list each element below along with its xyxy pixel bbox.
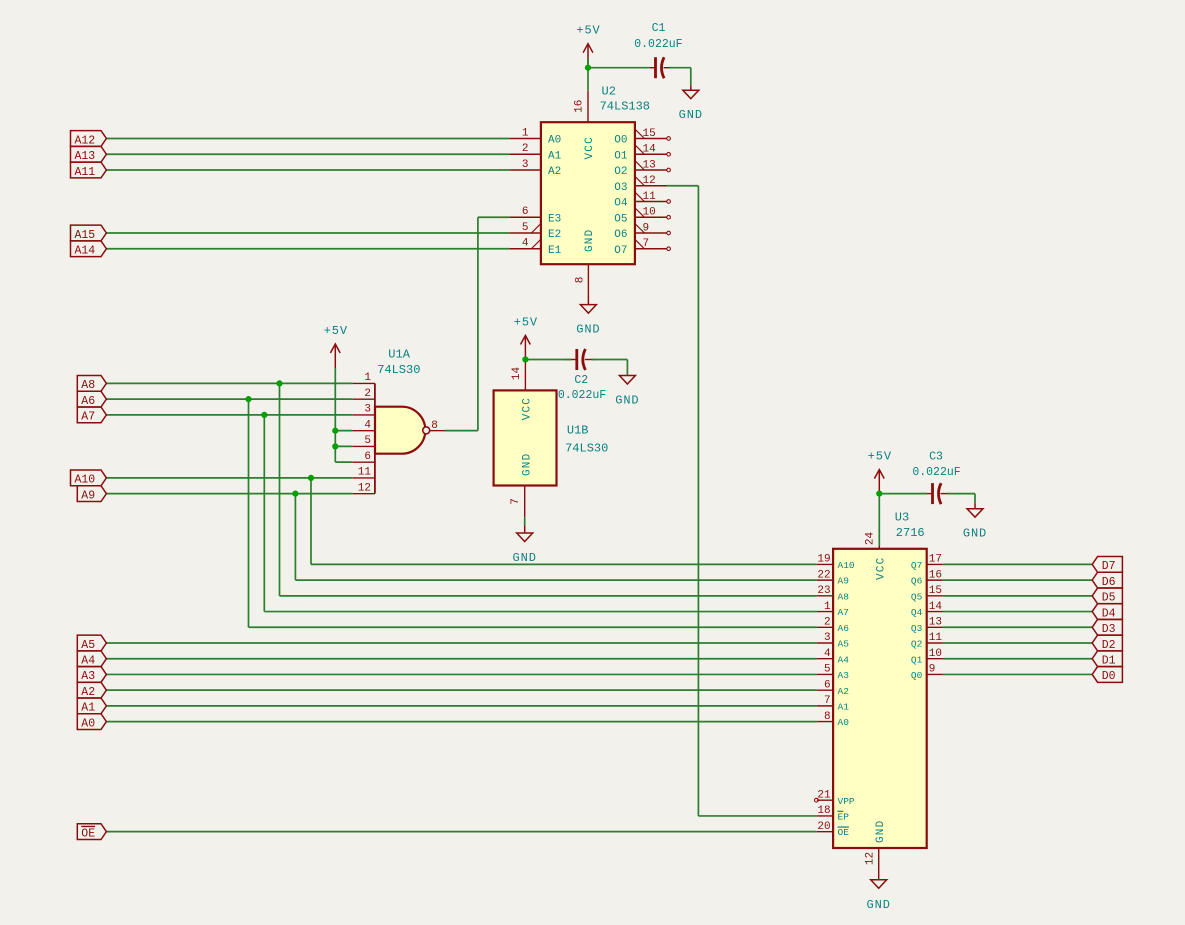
svg-text:15: 15 <box>929 585 942 597</box>
svg-text:6: 6 <box>522 206 529 218</box>
wire A9 riser <box>294 494 296 580</box>
svg-text:14: 14 <box>511 367 523 381</box>
svg-text:6: 6 <box>824 679 831 691</box>
U1A reference <box>388 347 410 361</box>
svg-text:14: 14 <box>929 601 943 613</box>
wire A8 to U1A <box>106 382 352 384</box>
svg-text:D4: D4 <box>1102 607 1116 620</box>
svg-text:A0: A0 <box>81 717 95 730</box>
wire A7 to U1A <box>106 414 352 416</box>
U3 reference <box>895 511 909 525</box>
svg-text:22: 22 <box>817 569 830 581</box>
svg-text:A15: A15 <box>75 229 96 242</box>
svg-text:0.022uF: 0.022uF <box>634 38 682 51</box>
global label A2 <box>77 682 106 699</box>
U1A pin 4 <box>352 419 375 431</box>
global label A7 <box>77 407 106 424</box>
svg-text:A8: A8 <box>838 591 850 602</box>
svg-text:A4: A4 <box>838 654 850 665</box>
U2 pin 5 E2 <box>509 222 561 241</box>
U3 pin 23 A8 <box>817 585 849 602</box>
wire A13 to U2 <box>106 153 509 155</box>
U1A pin 8 output <box>430 420 445 432</box>
svg-text:Q4: Q4 <box>911 607 923 618</box>
svg-text:18: 18 <box>817 805 830 817</box>
U1A pin 12 <box>352 482 375 494</box>
svg-text:2: 2 <box>824 616 831 628</box>
svg-text:11: 11 <box>929 632 943 644</box>
svg-text:A9: A9 <box>838 576 850 587</box>
wire A8 riser <box>279 383 281 595</box>
U1A pin 3 <box>352 404 375 416</box>
wire A9 to U1A <box>106 493 352 495</box>
svg-text:A2: A2 <box>81 686 95 699</box>
global label D6 <box>1092 572 1122 589</box>
svg-text:GND: GND <box>522 453 534 476</box>
svg-text:D6: D6 <box>1102 576 1116 589</box>
wire A6 to U3 <box>249 626 817 628</box>
power +5V at x=879.3 <box>868 450 892 494</box>
U2 pin 7 O7 <box>614 238 670 257</box>
capacitor C1 0.022uF <box>634 22 682 78</box>
svg-text:5: 5 <box>824 664 831 676</box>
wire E3 vertical <box>477 217 479 430</box>
svg-text:GND: GND <box>584 229 596 252</box>
svg-text:Q3: Q3 <box>911 623 923 634</box>
svg-text:E1: E1 <box>548 245 562 257</box>
svg-text:8: 8 <box>574 277 586 284</box>
svg-text:A7: A7 <box>838 607 849 618</box>
U1B value <box>565 441 608 455</box>
svg-text:O4: O4 <box>614 198 628 210</box>
global label A8 <box>77 376 106 393</box>
global label D7 <box>1092 557 1122 574</box>
U3 pin 6 A2 <box>817 679 849 696</box>
svg-text:12: 12 <box>358 482 371 494</box>
wire U1B pin7 to GND <box>524 517 526 525</box>
svg-text:A4: A4 <box>81 655 95 668</box>
global label A15 <box>71 225 107 242</box>
svg-text:7: 7 <box>824 695 831 707</box>
svg-text:5: 5 <box>364 435 371 447</box>
svg-text:Q0: Q0 <box>911 670 923 681</box>
global label A6 <box>77 391 106 408</box>
svg-text:74LS138: 74LS138 <box>600 100 650 114</box>
svg-text:19: 19 <box>817 554 830 566</box>
svg-text:D1: D1 <box>1102 655 1116 668</box>
global label D4 <box>1092 604 1122 621</box>
svg-text:O7: O7 <box>614 245 627 257</box>
svg-text:A11: A11 <box>75 166 96 179</box>
svg-text:+5V: +5V <box>514 316 538 330</box>
U2 pin 1 A0 <box>509 127 561 146</box>
svg-text:U3: U3 <box>895 511 909 525</box>
svg-text:17: 17 <box>929 554 942 566</box>
U3 pin 18 EP <box>817 805 849 822</box>
U2 pin 11 O4 <box>614 191 670 210</box>
svg-text:E2: E2 <box>548 229 561 241</box>
ground symbol at (627.4,375.5) <box>615 374 639 407</box>
svg-text:Q1: Q1 <box>911 654 923 665</box>
U2 pin 13 O2 <box>614 159 670 178</box>
global label A4 <box>77 651 106 668</box>
svg-text:3: 3 <box>364 404 371 416</box>
svg-text:U1B: U1B <box>567 424 589 438</box>
svg-text:4: 4 <box>364 419 371 431</box>
wire C1 GND corner v <box>690 68 692 86</box>
U3 pin 11 Q2 <box>911 632 943 649</box>
global label D2 <box>1092 635 1122 652</box>
wire A5 to U3 <box>106 642 817 644</box>
global label A14 <box>71 241 107 258</box>
power +5V at x=525.4 <box>514 316 538 360</box>
svg-text:A6: A6 <box>838 623 850 634</box>
U3 pin 9 Q0 <box>911 664 943 681</box>
svg-text:O5: O5 <box>614 213 627 225</box>
U3 pin 13 Q3 <box>911 616 943 633</box>
svg-text:5: 5 <box>522 222 529 234</box>
U2 pin 9 O6 <box>614 222 670 241</box>
U3 pin 7 A1 <box>817 695 849 712</box>
ground symbol at (524.7,533) <box>513 526 537 565</box>
U2 pin 12 O3 <box>614 175 666 194</box>
U3 pin 5 A3 <box>817 664 849 681</box>
svg-text:U1A: U1A <box>388 347 410 361</box>
U1A value <box>377 363 420 377</box>
wire A0 to U3 <box>106 721 817 723</box>
junction A10 tap <box>308 475 314 481</box>
U1B 74LS30 power unit body <box>494 390 557 485</box>
power +5V at x=335.3 <box>324 324 348 368</box>
svg-text:A2: A2 <box>838 686 850 697</box>
decoder U2 74LS138 body <box>541 122 635 264</box>
svg-text:+5V: +5V <box>324 324 348 338</box>
svg-text:OE: OE <box>838 827 850 838</box>
wire D7 from U3 <box>943 563 1092 565</box>
svg-text:11: 11 <box>358 467 372 479</box>
svg-text:A1: A1 <box>548 150 562 162</box>
junction U3 +5V <box>876 491 882 497</box>
wire +5V to pin6 <box>335 461 352 463</box>
global label A10 <box>71 470 107 487</box>
svg-text:A0: A0 <box>838 717 850 728</box>
capacitor C3 0.022uF <box>912 451 960 505</box>
U3 pin 17 Q7 <box>911 554 943 571</box>
svg-text:6: 6 <box>364 451 371 463</box>
wire pin16 to +5V junction <box>587 58 589 90</box>
svg-text:D3: D3 <box>1102 623 1116 636</box>
svg-text:GND: GND <box>963 527 987 541</box>
svg-text:1: 1 <box>364 372 371 384</box>
svg-text:D5: D5 <box>1102 592 1116 605</box>
svg-text:3: 3 <box>522 159 529 171</box>
power +5V at x=588 <box>576 24 600 68</box>
svg-text:74LS30: 74LS30 <box>377 363 420 377</box>
wire U3 +5V to pin24 <box>878 494 880 546</box>
svg-text:A0: A0 <box>548 135 561 147</box>
global label A0 <box>77 714 106 731</box>
U3 pin 8 A0 <box>817 711 849 728</box>
U2 value <box>600 100 650 114</box>
global label A13 <box>71 146 107 163</box>
wire U1A output to E3 riser <box>445 430 478 432</box>
svg-text:A8: A8 <box>81 379 95 392</box>
global label A12 <box>71 131 107 148</box>
U3 pin 22 A9 <box>817 569 849 586</box>
junction A8 tap <box>276 380 282 386</box>
U3 pin 19 A10 <box>817 554 855 571</box>
svg-text:D0: D0 <box>1102 670 1116 683</box>
wire A3 to U3 <box>106 673 817 675</box>
svg-text:16: 16 <box>574 100 586 113</box>
junction A7 tap <box>261 412 267 418</box>
wire A4 to U3 <box>106 658 817 660</box>
svg-text:A9: A9 <box>81 489 95 502</box>
svg-text:2716: 2716 <box>896 526 925 540</box>
svg-text:D2: D2 <box>1102 639 1116 652</box>
global label A9 <box>77 486 106 503</box>
junction A6 tap <box>245 396 251 402</box>
wire U3 +5V to C3 <box>879 493 927 495</box>
global label A5 <box>77 635 106 652</box>
U3 pin 14 Q4 <box>911 601 943 618</box>
svg-text:GND: GND <box>513 551 537 565</box>
wire A7 to U3 <box>264 611 817 613</box>
svg-text:A5: A5 <box>81 639 95 652</box>
svg-text:A14: A14 <box>75 245 96 258</box>
global label OE <box>77 824 106 841</box>
svg-text:C2: C2 <box>574 374 588 387</box>
wire D1 from U3 <box>943 658 1092 660</box>
wire D2 from U3 <box>943 642 1092 644</box>
wire A12 to U2 <box>106 138 509 140</box>
svg-text:16: 16 <box>929 569 942 581</box>
ground symbol at (878.7,879.8) <box>867 880 891 912</box>
U3 pin 1 A7 <box>817 601 849 618</box>
svg-text:GND: GND <box>615 394 639 408</box>
wire A9 to U3 <box>295 579 817 581</box>
junction U1A pin5 tie <box>332 443 338 449</box>
wire D5 from U3 <box>943 595 1092 597</box>
wire O3 out <box>667 185 699 187</box>
U2 pin 6 E3 <box>509 206 561 225</box>
wire D3 from U3 <box>943 626 1092 628</box>
wire A6 riser <box>248 399 250 627</box>
svg-text:3: 3 <box>824 632 831 644</box>
wire A11 to U2 <box>106 169 509 171</box>
global label A1 <box>77 698 106 715</box>
junction A9 tap <box>292 491 298 497</box>
svg-text:Q2: Q2 <box>911 639 923 650</box>
U2 pin 3 A2 <box>509 159 561 178</box>
NAND gate U1A 74LS30 body <box>375 383 430 493</box>
svg-text:O1: O1 <box>614 150 628 162</box>
svg-text:A12: A12 <box>75 134 96 147</box>
global label D3 <box>1092 619 1122 636</box>
U3 pin 16 Q6 <box>911 569 943 586</box>
svg-text:A10: A10 <box>75 474 96 487</box>
svg-text:A2: A2 <box>548 166 561 178</box>
global label D5 <box>1092 588 1122 605</box>
wire OE to U3 <box>106 831 817 833</box>
svg-text:VCC: VCC <box>584 136 596 159</box>
wire +5V riser U1A <box>334 368 336 462</box>
svg-text:C3: C3 <box>929 451 943 464</box>
svg-text:Q6: Q6 <box>911 576 923 587</box>
svg-text:Q7: Q7 <box>911 560 922 571</box>
wire U1B +5V to C2 <box>525 359 571 361</box>
U3 pin 4 A4 <box>817 648 849 665</box>
svg-text:A7: A7 <box>81 411 95 424</box>
wire A6 to U1A <box>106 398 352 400</box>
svg-text:8: 8 <box>431 420 438 432</box>
svg-text:7: 7 <box>510 498 522 505</box>
wire A10 to U1A <box>106 477 352 479</box>
svg-text:4: 4 <box>824 648 831 660</box>
svg-text:8: 8 <box>824 711 831 723</box>
svg-text:E3: E3 <box>548 213 561 225</box>
wire C3 GND corner v <box>974 494 976 504</box>
svg-text:A6: A6 <box>81 395 95 408</box>
svg-text:C1: C1 <box>652 22 666 35</box>
svg-text:12: 12 <box>865 852 877 865</box>
U3 value <box>896 526 925 540</box>
svg-text:A1: A1 <box>81 702 95 715</box>
U1B pin 14 VCC <box>511 360 534 421</box>
U1A pin 5 <box>352 435 375 447</box>
svg-text:A5: A5 <box>838 639 850 650</box>
junction U2 +5V <box>585 65 591 71</box>
wire A14 to U2 <box>106 248 509 250</box>
wire A7 riser <box>263 415 265 612</box>
svg-text:2: 2 <box>522 143 529 155</box>
svg-text:1: 1 <box>824 601 831 613</box>
svg-text:O2: O2 <box>614 166 627 178</box>
wire E3 horizontal <box>478 216 510 218</box>
svg-text:VCC: VCC <box>876 557 888 580</box>
U2 pin 14 O1 <box>614 144 670 163</box>
svg-text:EP: EP <box>838 812 850 823</box>
wire +5V junction to C1 <box>588 67 650 69</box>
wire A2 to U3 <box>106 689 817 691</box>
global label D1 <box>1092 651 1122 668</box>
U2 pin 10 O5 <box>614 207 670 226</box>
U3 pin 12 GND <box>865 820 887 880</box>
U2 pin 8 GND <box>574 229 596 296</box>
U2 reference <box>602 85 616 99</box>
svg-text:+5V: +5V <box>868 450 892 464</box>
wire +5V to pin5 <box>335 445 352 447</box>
svg-text:10: 10 <box>929 648 942 660</box>
svg-text:A3: A3 <box>838 670 850 681</box>
wire A10 riser <box>310 478 312 565</box>
global label D0 <box>1092 667 1122 684</box>
svg-text:A3: A3 <box>81 670 95 683</box>
global label A3 <box>77 667 106 684</box>
svg-text:4: 4 <box>522 238 529 250</box>
capacitor C2 0.022uF <box>558 349 606 402</box>
svg-text:0.022uF: 0.022uF <box>912 466 960 479</box>
wire O3 riser <box>697 186 699 816</box>
svg-text:1: 1 <box>522 127 529 139</box>
U3 pin 3 A5 <box>817 632 849 649</box>
svg-text:24: 24 <box>864 532 876 546</box>
svg-text:A10: A10 <box>838 560 855 571</box>
U3 pin 24 VCC <box>864 532 887 580</box>
U3 pin 2 A6 <box>817 616 849 633</box>
U3 pin 15 Q5 <box>911 585 943 602</box>
svg-text:VCC: VCC <box>522 397 534 420</box>
ground symbol at (588.4,304.6) <box>576 296 600 337</box>
U1A pin 1 <box>352 372 375 384</box>
junction U1B +5V <box>522 356 528 362</box>
wire +5V to pin4 <box>335 430 352 432</box>
junction U1A pin4 tie <box>332 428 338 434</box>
svg-text:Q5: Q5 <box>911 591 923 602</box>
svg-text:+5V: +5V <box>576 24 600 38</box>
svg-text:O3: O3 <box>614 182 627 194</box>
U2 pin 2 A1 <box>509 143 561 162</box>
wire C1 to GND corner h <box>670 67 691 69</box>
wire C2 to GND corner h <box>591 359 627 361</box>
wire D6 from U3 <box>943 579 1092 581</box>
EPROM U3 2716 body <box>833 549 927 848</box>
svg-text:U2: U2 <box>602 85 616 99</box>
svg-text:D7: D7 <box>1102 560 1116 573</box>
svg-text:A1: A1 <box>838 701 850 712</box>
U1B reference <box>567 424 589 438</box>
wire A10 to U3 <box>311 563 817 565</box>
svg-text:13: 13 <box>929 616 942 628</box>
U1A pin 6 <box>352 451 375 463</box>
wire C2 GND corner v <box>626 360 628 375</box>
U2 pin 16 VCC <box>574 91 597 160</box>
svg-text:GND: GND <box>867 898 891 912</box>
svg-text:9: 9 <box>929 664 936 676</box>
svg-text:2: 2 <box>364 388 371 400</box>
wire A8 to U3 <box>280 595 817 597</box>
svg-text:O6: O6 <box>614 229 627 241</box>
wire D0 from U3 <box>943 673 1092 675</box>
svg-text:23: 23 <box>817 585 830 597</box>
svg-text:0.022uF: 0.022uF <box>558 389 606 402</box>
U3 pin 20 OE <box>817 821 849 838</box>
svg-text:GND: GND <box>875 820 887 843</box>
wire O3 to EP <box>698 815 817 817</box>
svg-text:OE: OE <box>81 827 95 840</box>
U3 pin 10 Q1 <box>911 648 943 665</box>
global label A11 <box>71 162 107 179</box>
svg-text:GND: GND <box>679 108 703 122</box>
svg-text:GND: GND <box>576 323 600 337</box>
svg-text:74LS30: 74LS30 <box>565 441 608 455</box>
svg-text:20: 20 <box>817 821 830 833</box>
wire A15 to U2 <box>106 232 509 234</box>
svg-text:A13: A13 <box>75 150 96 163</box>
U3 pin 21 VPP <box>815 789 855 806</box>
svg-text:O0: O0 <box>614 135 627 147</box>
wire D4 from U3 <box>943 611 1092 613</box>
wire A1 to U3 <box>106 705 817 707</box>
U1B pin 7 GND <box>510 453 533 518</box>
wire C3 to GND corner h <box>947 493 975 495</box>
U1A pin 2 <box>352 388 375 400</box>
ground symbol at (690.8,90.2) <box>679 85 703 122</box>
U2 pin 15 O0 <box>614 128 670 147</box>
svg-text:VPP: VPP <box>838 796 855 807</box>
U1A pin 11 <box>352 467 375 479</box>
U2 pin 4 E1 <box>509 238 561 257</box>
